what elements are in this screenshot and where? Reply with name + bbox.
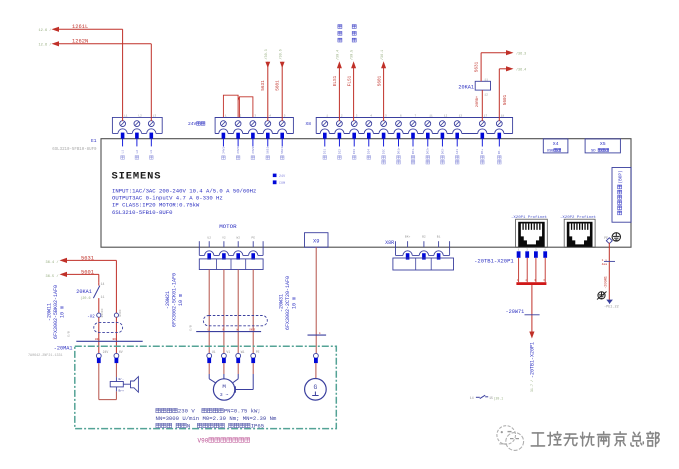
- svg-text:SIEMENS: SIEMENS: [112, 170, 162, 182]
- svg-text:-PE1.22: -PE1.22: [604, 306, 619, 310]
- svg-text:17: 17: [484, 115, 488, 118]
- svg-text:PN=0.75 kW;: PN=0.75 kW;: [224, 408, 261, 415]
- svg-text:B1: B1: [437, 235, 441, 238]
- svg-text:B2: B2: [422, 235, 426, 238]
- svg-text:31.7 /: 31.7 /: [530, 380, 535, 392]
- 24V terminal strip: [215, 118, 293, 134]
- svg-text:ELS1: ELS1: [333, 75, 338, 86]
- svg-text:U1: U1: [212, 350, 216, 354]
- motor cable wires: [208, 270, 210, 354]
- svg-text:DI1: DI1: [324, 149, 327, 154]
- motor spec text: [156, 408, 161, 412]
- wire 1262N: [52, 41, 60, 46]
- svg-text:11: 11: [429, 115, 433, 118]
- svg-text:36.5 /: 36.5 /: [46, 274, 59, 279]
- svg-text:-20GN1: -20GN1: [605, 276, 609, 289]
- svg-text:M: M: [222, 383, 226, 390]
- wire 5601 to X8-5: [381, 61, 386, 68]
- servo motor boundary box: [75, 346, 337, 428]
- svg-text:24V: 24V: [188, 121, 197, 127]
- svg-text:SD: SD: [591, 149, 596, 153]
- status LED legend: [273, 174, 277, 178]
- svg-text:5601: 5601: [281, 147, 284, 154]
- wire 5631 to 24V strip: [265, 62, 270, 68]
- svg-text:E/B: E/B: [189, 325, 193, 331]
- svg-text:BR+: BR+: [95, 338, 100, 341]
- svg-text:-20W31: -20W31: [279, 294, 285, 312]
- svg-text:230 V: 230 V: [178, 408, 195, 415]
- svg-text:X8: X8: [306, 121, 312, 127]
- encoder cable wire: [315, 247, 317, 353]
- PE node diamond: [606, 238, 612, 244]
- svg-text:11: 11: [484, 78, 488, 81]
- svg-text:20RB+: 20RB+: [476, 95, 480, 107]
- svg-text:5601: 5601: [377, 75, 382, 86]
- svg-text:5631: 5631: [475, 61, 480, 72]
- svg-text:3 ~: 3 ~: [220, 392, 229, 398]
- svg-text:DI4: DI4: [368, 149, 371, 154]
- svg-text:L1: L1: [124, 115, 128, 118]
- motor M 3~: [208, 363, 210, 374]
- svg-text:12: 12: [484, 93, 488, 96]
- V90 drive outline box E1: [101, 139, 631, 248]
- svg-text:/30.5: /30.5: [350, 50, 355, 60]
- PE junction: [606, 300, 613, 304]
- svg-text:10 m: 10 m: [291, 297, 297, 309]
- wire 20RB+ to X8-17: [481, 90, 483, 121]
- svg-text:12: 12: [444, 115, 448, 118]
- svg-text:5631: 5631: [267, 147, 270, 154]
- svg-text:14: 14: [101, 282, 105, 286]
- svg-text:13: 13: [459, 115, 463, 118]
- svg-text:BK+: BK+: [405, 235, 411, 238]
- svg-text:GNYE: GNYE: [249, 329, 256, 332]
- svg-text:DO2+: DO2+: [427, 147, 430, 154]
- svg-text:PE: PE: [251, 236, 255, 239]
- PE wire gauge tick: [604, 260, 615, 262]
- svg-text:/36.1: /36.1: [380, 50, 385, 60]
- svg-text:DO2-: DO2-: [441, 147, 444, 154]
- svg-text:V1: V1: [226, 350, 230, 354]
- svg-text:5631: 5631: [81, 255, 94, 261]
- svg-text:/30.6: /30.6: [278, 49, 283, 59]
- svg-text:24V: 24V: [103, 350, 109, 354]
- svg-text:MOTOR: MOTOR: [219, 223, 237, 230]
- PE clamp symbol: [598, 292, 605, 299]
- brake cable shield: [98, 317, 100, 353]
- BOP panel box: [612, 168, 631, 223]
- svg-text:W2: W2: [236, 236, 240, 239]
- X5 SD card box: [585, 139, 620, 153]
- wire FLS1 negative limit: [351, 61, 356, 68]
- relay contact 20KA1 bottom: [98, 282, 100, 285]
- svg-text:20KA1: 20KA1: [76, 289, 92, 295]
- svg-text:W1: W1: [241, 350, 245, 354]
- svg-text:COM: COM: [279, 182, 285, 186]
- svg-text:24V: 24V: [279, 175, 286, 179]
- svg-text:-20W21: -20W21: [165, 291, 171, 309]
- svg-text:(BOP): (BOP): [618, 170, 623, 183]
- X20P1 pins: [517, 251, 521, 257]
- svg-text:DO+: DO+: [481, 149, 484, 154]
- svg-text:L1: L1: [122, 150, 125, 154]
- svg-text:-X2: -X2: [87, 315, 95, 319]
- svg-text:-20W11: -20W11: [47, 303, 53, 321]
- encoder G: [315, 363, 317, 378]
- svg-text:/36.3: /36.3: [516, 52, 526, 57]
- X4 USB port box: [543, 139, 568, 153]
- svg-text:6FX3002-2CT20-1AF0: 6FX3002-2CT20-1AF0: [285, 276, 291, 330]
- svg-text:12.6 /: 12.6 /: [39, 28, 52, 33]
- svg-text:DO1+: DO1+: [397, 147, 400, 154]
- wire 5631 brake supply: [60, 258, 68, 263]
- wire ELS1 positive limit: [337, 61, 342, 68]
- svg-text:36.4 /: 36.4 /: [46, 260, 59, 265]
- svg-text:X8R: X8R: [385, 240, 394, 246]
- svg-text:X9: X9: [313, 239, 319, 245]
- X8R terminal strip: [407, 241, 409, 247]
- svg-text:0VDC: 0VDC: [119, 309, 122, 316]
- svg-text:24VDC: 24VDC: [101, 308, 104, 317]
- wire 5631 from relay: [480, 53, 482, 82]
- svg-text:IP65: IP65: [251, 423, 264, 430]
- svg-text:(20.6: (20.6: [80, 296, 90, 301]
- svg-text:DIC: DIC: [383, 149, 386, 154]
- svg-text:U2: U2: [207, 236, 211, 239]
- mains strip pins: [121, 133, 125, 139]
- svg-text:6SL3210-5FB10-8UF0: 6SL3210-5FB10-8UF0: [52, 148, 97, 152]
- svg-text:E/B: E/B: [67, 331, 71, 337]
- motor cable shield: [203, 316, 267, 326]
- svg-text:-20W71: -20W71: [506, 309, 525, 315]
- 24V jumper loops: [223, 95, 238, 117]
- svg-text:0V: 0V: [119, 350, 123, 354]
- wire 5601 to 24V strip: [280, 62, 285, 68]
- svg-text:/30.4: /30.4: [335, 50, 340, 60]
- watermark logo mark: [497, 426, 524, 451]
- cable 20W71: [531, 285, 533, 332]
- svg-text:11: 11: [101, 295, 105, 299]
- svg-text:PE: PE: [256, 350, 260, 354]
- MOTOR connector housing: [199, 259, 263, 270]
- svg-text:L3: L3: [150, 150, 153, 154]
- svg-text:/36.4: /36.4: [516, 68, 526, 73]
- svg-text:X5: X5: [600, 141, 606, 147]
- svg-text:5601: 5601: [81, 269, 94, 275]
- svg-text:BR-: BR-: [113, 338, 118, 341]
- svg-text:1261L: 1261L: [72, 24, 88, 30]
- X8 terminal strip: [316, 118, 512, 134]
- watermark text: [532, 434, 545, 447]
- wire 5601 brake supply: [60, 272, 68, 277]
- svg-text:X4: X4: [553, 141, 559, 147]
- svg-text:24V3: 24V3: [252, 147, 255, 154]
- svg-text:Br-: Br-: [119, 378, 125, 381]
- svg-text:L2: L2: [138, 115, 142, 118]
- svg-text:5631: 5631: [261, 80, 266, 91]
- brake coil: [98, 363, 100, 400]
- svg-text:24V2: 24V2: [237, 147, 240, 154]
- X8R connector housing: [393, 258, 454, 270]
- svg-text:7A0642-2NF21-1331: 7A0642-2NF21-1331: [28, 354, 63, 358]
- svg-text:E1: E1: [91, 138, 97, 144]
- svg-text:5601: 5601: [503, 94, 508, 105]
- svg-text:1 x: 1 x: [602, 259, 608, 262]
- MOTOR terminal strip: [208, 241, 210, 247]
- svg-text:Br+: Br+: [119, 390, 125, 393]
- wire 5601 to X8-18: [498, 69, 500, 121]
- svg-text:4mm: 4mm: [602, 263, 608, 266]
- svg-text:10 m: 10 m: [178, 294, 184, 306]
- encoder connector pin: [314, 353, 319, 358]
- svg-text:24V1: 24V1: [222, 147, 225, 154]
- svg-text:6FX3002-5CK01-1AF0: 6FX3002-5CK01-1AF0: [171, 273, 177, 327]
- svg-text:G: G: [314, 384, 318, 391]
- svg-text:DI2: DI2: [338, 149, 341, 154]
- svg-text:OUTPUT3AC 0-inputV 4.7 A 0-33: OUTPUT3AC 0-inputV 4.7 A 0-330 Hz: [112, 195, 223, 202]
- svg-text:-20TB1-X20P1: -20TB1-X20P1: [529, 342, 535, 378]
- svg-text:V90: V90: [198, 437, 209, 444]
- svg-text:10 m: 10 m: [59, 306, 65, 318]
- motor connector pins: [207, 353, 212, 358]
- svg-text:5601: 5601: [276, 80, 281, 91]
- motor shield bar: [196, 331, 261, 333]
- svg-text:/30.3: /30.3: [264, 49, 269, 59]
- svg-text:DO1-: DO1-: [412, 147, 415, 154]
- svg-text:AI1: AI1: [456, 149, 459, 154]
- relay contact 20KA1 top: [475, 81, 490, 90]
- svg-text:18: 18: [501, 115, 505, 118]
- 24V strip pins: [222, 133, 226, 139]
- svg-text:DO-: DO-: [498, 149, 501, 154]
- PE wire: [608, 243, 610, 302]
- profinet cable bundle bar: [516, 282, 546, 285]
- wire 1261L: [52, 27, 60, 32]
- brake connector pins: [96, 353, 101, 358]
- svg-text:NN=3000 U/min M0=2.39 Nm; MN=2: NN=3000 U/min M0=2.39 Nm; MN=2.39 Nm: [156, 415, 277, 422]
- svg-text:6FX3002-5BK02-1AF0: 6FX3002-5BK02-1AF0: [53, 285, 59, 339]
- svg-text:FLS1: FLS1: [347, 75, 352, 86]
- svg-text:1262N: 1262N: [72, 39, 88, 45]
- profinet cable wires: [518, 258, 520, 282]
- svg-text:6SL3210-5FB10-8UF0: 6SL3210-5FB10-8UF0: [112, 209, 173, 216]
- svg-text:14: 14: [470, 396, 474, 400]
- svg-text:-20TB1-X20P1: -20TB1-X20P1: [474, 257, 514, 264]
- mains terminal strip L1 L2 L3: [112, 117, 162, 133]
- svg-text:USB: USB: [547, 149, 555, 153]
- svg-text:V2: V2: [222, 236, 226, 239]
- svg-text:DI3: DI3: [353, 149, 356, 154]
- svg-text:L3: L3: [153, 115, 157, 118]
- X9 encoder socket box: [305, 233, 329, 248]
- svg-text:IP CLASS:IP20 MOTOR:0.75kW: IP CLASS:IP20 MOTOR:0.75kW: [112, 202, 200, 209]
- svg-text:(20.1: (20.1: [494, 396, 504, 400]
- X8 strip pins: [323, 133, 327, 139]
- svg-text:12.6 /: 12.6 /: [39, 43, 52, 48]
- svg-text:N: N: [187, 423, 190, 430]
- svg-text:20KA1: 20KA1: [458, 85, 474, 91]
- brake shield bar: [76, 340, 142, 342]
- svg-text:-20MA1: -20MA1: [54, 345, 73, 351]
- svg-text:L2: L2: [136, 150, 139, 154]
- svg-text:INPUT:1AC/3AC 200-240V 10.4 A/: INPUT:1AC/3AC 200-240V 10.4 A/5.0 A 50/6…: [112, 187, 256, 194]
- svg-text:15: 15: [489, 396, 493, 400]
- brake buzzer symbol: [123, 383, 130, 385]
